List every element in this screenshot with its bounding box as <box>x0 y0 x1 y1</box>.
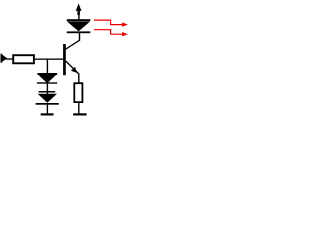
diode D1 <box>37 73 57 84</box>
light arrow 1 (red) <box>94 20 124 25</box>
transistor Q1 emitter arrowhead <box>71 67 77 73</box>
diode D2 <box>36 91 59 105</box>
transistor Q1 base bar <box>63 44 66 75</box>
wire emitter vertical <box>78 74 79 83</box>
transistor Q1 collector diagonal <box>65 40 79 49</box>
wire input to R1 <box>6 58 13 59</box>
LED D3 <box>67 19 91 33</box>
resistor R1 <box>13 55 34 63</box>
wire collector vertical <box>79 33 80 41</box>
resistor R2 <box>74 83 82 102</box>
light arrow 2 (red) <box>94 30 124 35</box>
transistor Q1 emitter diagonal <box>66 61 79 74</box>
node junction wire down <box>47 59 48 73</box>
wire R1 to base <box>35 59 64 60</box>
ground (left) <box>41 105 54 116</box>
ground (right) <box>73 103 86 116</box>
supply arrow (top) <box>76 4 82 20</box>
input terminal arrow <box>1 54 8 63</box>
wire D1 to D2 <box>47 84 48 94</box>
